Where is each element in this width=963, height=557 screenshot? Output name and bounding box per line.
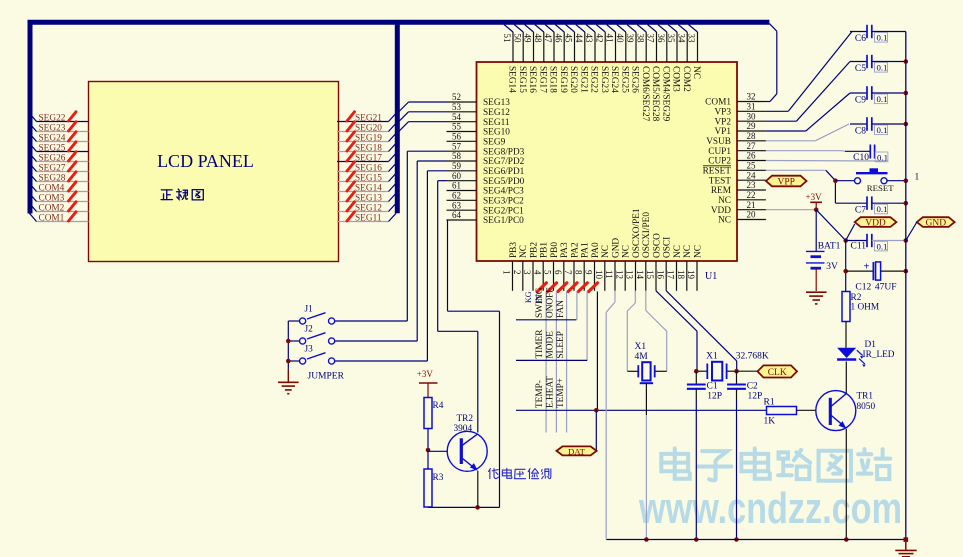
svg-text:J3: J3 — [305, 345, 314, 355]
svg-text:ONOFF: ONOFF — [546, 288, 556, 318]
svg-text:C12: C12 — [855, 283, 871, 293]
svg-text:C7: C7 — [855, 206, 866, 216]
svg-text:0.1: 0.1 — [877, 241, 888, 251]
svg-text:28: 28 — [747, 131, 757, 141]
svg-text:13: 13 — [625, 270, 635, 280]
svg-text:1K: 1K — [764, 417, 776, 427]
svg-text:GND: GND — [926, 219, 947, 229]
svg-text:VDD: VDD — [711, 206, 731, 216]
svg-text:34: 34 — [677, 34, 687, 44]
svg-text:23: 23 — [747, 180, 757, 190]
svg-text:57: 57 — [452, 141, 462, 151]
svg-text:NC: NC — [622, 245, 632, 258]
svg-text:OSCXI/PE0: OSCXI/PE0 — [642, 212, 652, 258]
svg-text:COM1: COM1 — [705, 98, 731, 108]
svg-text:U1: U1 — [705, 271, 717, 282]
svg-text:GND: GND — [611, 238, 621, 258]
svg-text:3V: 3V — [826, 262, 838, 272]
svg-text:SEG13: SEG13 — [483, 98, 510, 108]
svg-text:+: + — [864, 262, 870, 273]
svg-text:PB1: PB1 — [540, 242, 550, 258]
svg-text:KG: KG — [524, 291, 533, 303]
svg-text:SEG12: SEG12 — [355, 203, 382, 213]
svg-text:43: 43 — [584, 34, 594, 44]
svg-text:RESET: RESET — [703, 167, 732, 177]
svg-text:1: 1 — [502, 270, 512, 275]
svg-text:OSCXO/PE1: OSCXO/PE1 — [632, 208, 642, 258]
svg-text:C9: C9 — [855, 95, 866, 105]
svg-text:J2: J2 — [305, 325, 314, 335]
svg-text:VSUB: VSUB — [706, 137, 731, 147]
svg-text:C2: C2 — [747, 382, 758, 392]
svg-text:37: 37 — [646, 34, 656, 44]
svg-text:R4: R4 — [433, 401, 444, 411]
svg-text:42: 42 — [595, 34, 605, 43]
svg-text:SEG22: SEG22 — [589, 66, 599, 93]
svg-text:10: 10 — [594, 270, 604, 280]
svg-text:C1: C1 — [707, 382, 718, 392]
svg-text:39: 39 — [625, 34, 635, 44]
svg-text:CUP1: CUP1 — [708, 147, 731, 157]
svg-text:VP3: VP3 — [714, 108, 731, 118]
svg-text:5: 5 — [543, 270, 553, 275]
svg-text:CLK: CLK — [768, 368, 787, 378]
svg-text:SEG12: SEG12 — [483, 108, 510, 118]
svg-text:40: 40 — [615, 34, 625, 44]
svg-text:J1: J1 — [305, 305, 314, 315]
svg-text:COM4: COM4 — [39, 183, 65, 193]
svg-text:20: 20 — [747, 210, 757, 220]
svg-text:0.1: 0.1 — [877, 204, 888, 214]
svg-text:SEG10: SEG10 — [483, 128, 510, 138]
svg-text:E.HEAT: E.HEAT — [546, 376, 556, 408]
svg-text:27: 27 — [747, 141, 757, 151]
svg-text:51: 51 — [502, 34, 512, 43]
svg-text:15: 15 — [645, 270, 655, 280]
svg-text:JUMPER: JUMPER — [308, 372, 345, 382]
svg-text:44: 44 — [574, 34, 584, 44]
svg-text:R1: R1 — [764, 398, 775, 408]
svg-text:SEG27: SEG27 — [39, 163, 66, 173]
svg-text:X1: X1 — [706, 352, 718, 362]
svg-text:0.1: 0.1 — [877, 94, 888, 104]
svg-text:1 OHM: 1 OHM — [851, 303, 880, 313]
svg-text:SEG5/PD0: SEG5/PD0 — [483, 177, 525, 187]
svg-text:58: 58 — [452, 151, 462, 161]
svg-text:SEG6/PD1: SEG6/PD1 — [483, 167, 525, 177]
svg-text:9: 9 — [584, 270, 594, 275]
svg-text:26: 26 — [747, 151, 757, 161]
svg-text:53: 53 — [452, 102, 462, 112]
svg-text:49: 49 — [523, 34, 533, 44]
svg-text:NC: NC — [519, 245, 529, 258]
svg-text:OSCO: OSCO — [652, 233, 662, 258]
svg-text:SEG22: SEG22 — [39, 113, 66, 123]
svg-text:SEG4/PC3: SEG4/PC3 — [483, 187, 524, 197]
svg-text:SEG1/PC0: SEG1/PC0 — [483, 216, 524, 226]
svg-text:56: 56 — [452, 132, 462, 142]
svg-text:SEG19: SEG19 — [355, 133, 382, 143]
svg-text:4: 4 — [533, 270, 543, 275]
svg-text:22: 22 — [747, 190, 756, 200]
svg-text:8: 8 — [574, 270, 584, 275]
svg-text:SEG13: SEG13 — [355, 193, 382, 203]
svg-text:SEG20: SEG20 — [355, 123, 382, 133]
svg-text:NC: NC — [683, 245, 693, 258]
svg-text:SEG26: SEG26 — [630, 66, 640, 93]
svg-text:OSCI: OSCI — [663, 237, 673, 258]
svg-text:NC: NC — [718, 196, 731, 206]
svg-text:TR1: TR1 — [857, 392, 874, 402]
svg-text:12P: 12P — [707, 391, 722, 401]
svg-text:www.cndzz.com: www.cndzz.com — [638, 484, 902, 533]
svg-text:46: 46 — [554, 34, 564, 44]
svg-text:C11: C11 — [851, 242, 867, 252]
svg-text:PA2: PA2 — [570, 242, 580, 258]
svg-text:SEG15: SEG15 — [517, 66, 527, 93]
svg-text:C8: C8 — [855, 126, 866, 136]
svg-text:30: 30 — [747, 111, 757, 121]
svg-text:59: 59 — [452, 161, 462, 171]
svg-text:TEMP+: TEMP+ — [556, 378, 566, 408]
svg-text:IR_LED: IR_LED — [863, 350, 895, 360]
svg-text:COM4/SEG29: COM4/SEG29 — [660, 66, 670, 122]
svg-text:11: 11 — [604, 270, 614, 279]
svg-text:VP1: VP1 — [714, 127, 731, 137]
svg-text:PB2: PB2 — [529, 242, 539, 258]
svg-text:38: 38 — [636, 34, 646, 44]
svg-text:SEG23: SEG23 — [599, 66, 609, 93]
svg-text:SEG20: SEG20 — [568, 66, 578, 93]
svg-text:CUP2: CUP2 — [708, 157, 731, 167]
svg-text:TEMP-: TEMP- — [535, 380, 545, 408]
svg-text:SEG25: SEG25 — [39, 143, 66, 153]
svg-text:SEG16: SEG16 — [355, 163, 382, 173]
svg-text:COM6/SEG27: COM6/SEG27 — [640, 66, 650, 122]
svg-text:SEG24: SEG24 — [609, 66, 619, 93]
svg-text:25: 25 — [747, 161, 757, 171]
svg-text:16: 16 — [656, 270, 666, 280]
svg-text:SEG14: SEG14 — [507, 66, 517, 93]
svg-text:TR2: TR2 — [457, 414, 474, 424]
svg-text:SEG11: SEG11 — [355, 213, 382, 223]
svg-text:SWING: SWING — [535, 287, 545, 318]
svg-text:64: 64 — [452, 210, 462, 220]
svg-text:NC: NC — [693, 245, 703, 258]
svg-text:PB0: PB0 — [550, 242, 560, 258]
svg-text:+3V: +3V — [806, 192, 823, 202]
svg-text:VPP: VPP — [777, 177, 794, 187]
svg-text:SEG17: SEG17 — [537, 66, 547, 93]
svg-text:45: 45 — [564, 34, 574, 44]
svg-text:LCD PANEL: LCD PANEL — [157, 151, 254, 171]
svg-text:32: 32 — [747, 92, 756, 102]
svg-text:3: 3 — [522, 270, 532, 275]
svg-text:SEG23: SEG23 — [39, 123, 66, 133]
svg-text:VDD: VDD — [865, 219, 886, 229]
svg-text:COM3: COM3 — [671, 66, 681, 92]
svg-text:SEG28: SEG28 — [39, 173, 66, 183]
svg-text:6: 6 — [553, 270, 563, 275]
svg-text:12P: 12P — [748, 391, 763, 401]
svg-text:SEG16: SEG16 — [527, 66, 537, 93]
svg-text:SEG3/PC2: SEG3/PC2 — [483, 197, 524, 207]
svg-text:12: 12 — [615, 270, 625, 279]
svg-text:33: 33 — [687, 34, 697, 44]
svg-text:SEG9: SEG9 — [483, 138, 506, 148]
svg-text:32.768K: 32.768K — [736, 352, 769, 362]
svg-text:SEG18: SEG18 — [355, 143, 382, 153]
svg-text:55: 55 — [452, 122, 462, 132]
svg-text:31: 31 — [747, 102, 756, 112]
svg-text:19: 19 — [686, 270, 696, 280]
svg-text:BAT1: BAT1 — [818, 242, 841, 252]
svg-text:SEG21: SEG21 — [355, 113, 382, 123]
svg-text:0.1: 0.1 — [877, 33, 888, 43]
svg-text:4M: 4M — [635, 352, 649, 362]
svg-text:NC: NC — [601, 245, 611, 258]
svg-text:SEG19: SEG19 — [558, 66, 568, 93]
svg-text:PA0: PA0 — [591, 242, 601, 258]
svg-text:60: 60 — [452, 171, 462, 181]
svg-text:+3V: +3V — [417, 369, 434, 379]
svg-text:VP2: VP2 — [714, 117, 731, 127]
svg-text:MODE: MODE — [546, 331, 556, 359]
svg-text:50: 50 — [513, 34, 523, 44]
svg-text:18: 18 — [676, 270, 686, 280]
svg-text:24: 24 — [747, 170, 757, 180]
svg-text:SEG26: SEG26 — [39, 153, 66, 163]
svg-text:SLEEP: SLEEP — [556, 331, 566, 358]
svg-text:COM5/SEG28: COM5/SEG28 — [650, 66, 660, 122]
svg-text:SEG11: SEG11 — [483, 118, 510, 128]
svg-text:1: 1 — [915, 173, 920, 183]
svg-text:D1: D1 — [865, 340, 877, 350]
svg-text:C5: C5 — [855, 64, 866, 74]
svg-text:21: 21 — [747, 200, 756, 210]
svg-text:C6: C6 — [855, 34, 866, 44]
svg-text:TEST: TEST — [709, 176, 732, 186]
svg-text:TIMER: TIMER — [535, 329, 545, 359]
svg-text:17: 17 — [666, 270, 676, 280]
svg-text:COM1: COM1 — [39, 213, 65, 223]
svg-text:SEG21: SEG21 — [578, 66, 588, 93]
svg-text:54: 54 — [452, 112, 462, 122]
svg-text:61: 61 — [452, 181, 461, 191]
svg-text:SEG2/PC1: SEG2/PC1 — [483, 206, 524, 216]
svg-text:R2: R2 — [851, 293, 862, 303]
svg-text:R3: R3 — [433, 473, 444, 483]
svg-text:PA3: PA3 — [560, 242, 570, 258]
svg-text:41: 41 — [605, 34, 615, 43]
svg-text:SEG14: SEG14 — [355, 183, 382, 193]
svg-text:COM3: COM3 — [39, 193, 65, 203]
svg-text:7: 7 — [563, 270, 573, 275]
svg-text:14: 14 — [635, 270, 645, 280]
svg-text:63: 63 — [452, 200, 462, 210]
svg-text:SEG25: SEG25 — [619, 66, 629, 93]
svg-text:52: 52 — [452, 92, 461, 102]
svg-text:48: 48 — [533, 34, 543, 44]
svg-text:0.1: 0.1 — [877, 125, 888, 135]
svg-text:RESET: RESET — [867, 183, 895, 193]
svg-text:36: 36 — [656, 34, 666, 44]
svg-text:0.1: 0.1 — [877, 63, 888, 73]
svg-text:NC: NC — [718, 216, 731, 226]
svg-text:SEG8/PD3: SEG8/PD3 — [483, 147, 525, 157]
svg-text:SEG24: SEG24 — [39, 133, 66, 143]
svg-text:PB3: PB3 — [509, 242, 519, 258]
svg-text:X1: X1 — [635, 342, 647, 352]
svg-text:NC: NC — [673, 245, 683, 258]
svg-text:SEG15: SEG15 — [355, 173, 382, 183]
svg-text:62: 62 — [452, 191, 461, 201]
svg-text:SEG7/PD2: SEG7/PD2 — [483, 157, 525, 167]
svg-text:47UF: 47UF — [875, 283, 897, 293]
svg-text:PA1: PA1 — [581, 242, 591, 258]
svg-text:COM2: COM2 — [39, 203, 65, 213]
svg-text:FAN: FAN — [556, 300, 566, 318]
svg-text:REM: REM — [711, 186, 731, 196]
svg-text:2: 2 — [512, 270, 522, 275]
svg-text:29: 29 — [747, 121, 757, 131]
svg-text:35: 35 — [666, 34, 676, 44]
svg-text:3904: 3904 — [454, 424, 473, 434]
svg-text:SEG17: SEG17 — [355, 153, 382, 163]
svg-text:8050: 8050 — [857, 402, 876, 412]
svg-text:DAT: DAT — [568, 446, 586, 456]
svg-text:NC: NC — [691, 66, 701, 79]
svg-text:COM2: COM2 — [681, 66, 691, 92]
svg-text:47: 47 — [543, 34, 553, 44]
svg-text:SEG18: SEG18 — [548, 66, 558, 93]
